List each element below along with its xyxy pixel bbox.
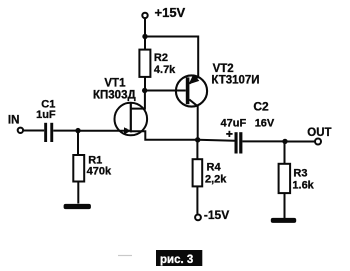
svg-text:R4: R4 [207,162,222,174]
junction node top [142,34,147,39]
wire top node to VT2 emitter [145,37,198,78]
figure label box [156,250,202,266]
output node junction [195,137,200,142]
wire IN to C1 [23,130,44,132]
wire node A down to VT1 drain [131,91,145,109]
transistor VT2 body circle [176,75,207,106]
svg-text:IN: IN [8,114,20,126]
svg-text:1.6k: 1.6k [292,179,314,191]
OUT node junction [282,139,287,144]
wire R3 to ground [284,193,286,218]
svg-text:рис. 3: рис. 3 [160,254,193,266]
svg-text:47uF: 47uF [221,118,247,130]
resistor R4 [193,159,203,186]
resistor R1 [73,155,84,182]
svg-text:C2: C2 [253,99,269,113]
VT2 base bar [186,77,190,104]
terminal IN [18,128,23,133]
terminal OUT [315,139,321,145]
svg-text:1uF: 1uF [36,109,56,121]
terminal +15V [142,13,147,18]
wire +15V terminal to R2 top [144,19,146,50]
resistor R4 lead [196,140,198,159]
terminal -15V [195,215,201,221]
svg-text:КП303Д: КП303Д [93,89,136,101]
wire R1 to ground [77,182,79,204]
svg-text:OUT: OUT [307,127,331,139]
svg-text:VT2: VT2 [213,63,234,75]
wire OUT node to OUT terminal [285,141,315,143]
VT1 gate arrow [124,127,131,134]
svg-text:16V: 16V [255,118,275,130]
svg-text:470k: 470k [87,166,112,178]
svg-text:+15V: +15V [155,5,186,20]
wire C2 to OUT node [242,140,285,142]
VT1 channel bar [130,103,132,133]
wire output node to C2 [198,139,235,142]
svg-text:R1: R1 [88,154,102,166]
svg-text:КТ3107И: КТ3107И [211,75,259,87]
wire VT1 source to output node [131,131,198,140]
wire C1 to gate node [53,130,78,132]
wire R2 bottom to node A [144,77,146,91]
svg-text:R2: R2 [154,52,168,64]
svg-text:4.7k: 4.7k [154,64,176,76]
wire VT2 collector to output node [197,106,199,140]
wire gate node to VT1 gate [78,130,130,132]
capacitor C2 plates [235,132,238,153]
ground (R3) [271,218,296,223]
resistor R1 lead [77,131,79,155]
ground (R1) [64,204,91,209]
svg-text:VT1: VT1 [104,77,126,89]
node A junction (drain / R2 / base) [142,88,147,93]
wire R4 to -15V terminal [196,186,198,213]
resistor R2 [139,50,150,77]
VT2 emitter diagonal [189,77,198,84]
resistor R3 [279,164,291,193]
wire node A to VT2 base [145,90,186,92]
VT2 emitter arrow (PNP) [189,74,200,84]
resistor R3 lead [284,141,286,163]
capacitor C1 plates [44,123,47,142]
svg-text:R3: R3 [293,168,307,180]
C2 plus sign [226,133,232,135]
transistor VT1 body circle [115,103,148,136]
figure caption underline artifact [118,255,132,257]
svg-text:-15V: -15V [204,208,229,222]
junction gate node [75,128,80,133]
VT2 collector diagonal [189,100,197,107]
svg-text:2,2k: 2,2k [205,173,227,185]
